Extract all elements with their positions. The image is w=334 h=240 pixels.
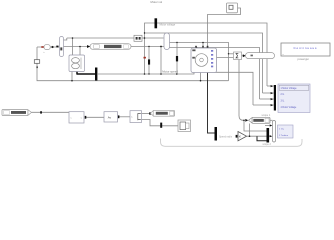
scope1 mux bar [274,85,276,111]
wire node x161 down [160,47,162,75]
wire tagL to blockA [32,111,70,113]
wire capsule1 top stub [64,38,67,40]
powergui [281,43,330,56]
wire mux1 output y23 [157,23,267,86]
wire machine top port1 [196,47,198,50]
mux3 black bar [215,127,218,141]
wire sum inputs from machine right [217,56,234,58]
wire beta into capsule3 [142,37,164,39]
wire blockA to blockB [86,116,104,118]
wire gain out y136.2 [247,135,271,137]
lower gray capsule bar [273,121,276,143]
svg-text:Motor speed: Motor speed [162,69,178,73]
blockD [178,120,191,132]
svg-text:Continuous: Continuous [294,46,318,50]
blocklet near x134 [134,35,142,41]
wire left input y47 [37,46,59,48]
wire sum input1 branch [229,53,234,55]
capsule4 [246,53,275,59]
wire blockC out2 to blockD [142,120,179,126]
wire delta y47.5 to scope in3 [170,48,260,100]
wire scope1 in1 stub [267,85,274,87]
svg-text:1 Vq: 1 Vq [279,129,284,131]
svg-text:4 Rotor Voltage: 4 Rotor Voltage [281,106,298,109]
wire y72.3 tap to scope in4 [208,72,254,105]
gray area annotation bottom [161,139,303,147]
wire alpha y33 to scope in2 [145,33,263,93]
wire transformer tap right [79,47,81,56]
svg-text:2 Turbine: 2 Turbine [279,134,289,137]
transformer block [69,55,85,72]
sum block [234,52,242,60]
svg-text:Av: Av [108,115,112,119]
wire beta y38 [67,37,134,39]
svg-text:Motor vol: Motor vol [151,0,163,4]
svg-text:1 Motor Voltage: 1 Motor Voltage [281,87,298,90]
wire machine bottom stub m [200,72,202,81]
wire machine top port3 from B1 [208,8,241,48]
wire x244 down to mux4 in1 [244,120,267,131]
wire capsule4 in [242,55,244,57]
wire tag3 out to bar [270,119,273,121]
scope1 box [278,84,310,113]
wire tag2 out to capsule3 [131,46,164,48]
tagR goto [153,110,175,116]
wire blockC out1 to tagR [142,113,154,115]
wire dark machine to mux3 [208,72,215,134]
mux1 black bar [155,18,158,28]
wire y80.7 long return [37,47,229,81]
wire y74 mux2 out to machine [98,72,194,75]
tag2 capsule with text [90,44,131,50]
wire x177 down [176,43,178,75]
blockB [104,112,118,122]
wire scope1 in3 stub [260,98,274,100]
mux2 black bar [95,68,97,81]
svg-text:scope 1: scope 1 [262,114,271,117]
red marks [41,46,146,58]
wire mux1 feed vertical [145,23,155,74]
wire gain out up branch [249,124,251,137]
wire machine gamma drop [202,43,204,49]
wire node x149 down [148,47,150,75]
wire lower bar in1 stub [265,125,270,127]
wire transformer bottom left stub [71,72,73,81]
small block on left vertical wire [34,60,39,64]
blockA [69,112,84,123]
small block B1 top right [227,3,238,13]
mux4 black bar [267,128,270,143]
svg-text:scope 2: scope 2 [263,143,272,146]
capsule3 [164,33,170,50]
capsule block small i+ [44,45,50,50]
gain triangle [238,132,247,141]
wire scope1 in4 stub [253,104,274,106]
tag3 from [252,117,270,123]
machine block [191,48,217,73]
wire blockB to blockC [119,116,131,118]
wire transformer tap left [72,38,74,55]
svg-text:powergui: powergui [298,57,310,61]
svg-text:Speed rad/s: Speed rad/s [219,135,233,138]
capsule1 voltage measurement [60,37,64,57]
wire dark into mux4 [257,136,267,141]
arrow ticks black [40,46,273,138]
wire thick black to mux2 [76,72,95,75]
blockC [130,111,142,123]
svg-text:Motor voltage: Motor voltage [160,22,176,26]
tagL goto left bottom [2,110,28,116]
svg-text:K: K [239,135,241,139]
wire gamma y42.5 jog down [170,43,229,81]
wire scope1 in2 stub [263,92,274,94]
lower scope box [278,125,294,138]
wire sum bottom to tag3 [239,60,245,121]
wire y46.5 capsule1 to tag2 [64,46,88,48]
